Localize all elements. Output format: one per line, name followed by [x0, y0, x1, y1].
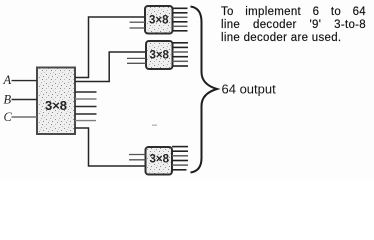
- svg-text:64 output: 64 output: [222, 82, 277, 97]
- svg-text:3×8: 3×8: [45, 98, 67, 113]
- svg-text:A: A: [3, 73, 12, 87]
- svg-text:B: B: [4, 93, 12, 107]
- svg-text:3×8: 3×8: [149, 50, 169, 62]
- svg-text:3×8: 3×8: [149, 14, 169, 26]
- svg-text:C: C: [4, 110, 13, 124]
- svg-text:3×8: 3×8: [150, 154, 170, 166]
